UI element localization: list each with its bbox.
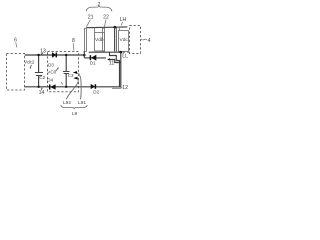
svg-text:L9: L9 <box>72 111 78 117</box>
leader 12 <box>121 87 124 88</box>
svg-text:D3: D3 <box>48 63 54 68</box>
small tick crossing bottom wire <box>61 82 63 84</box>
brace under label 2 spanning 21 and 22 <box>86 6 112 11</box>
leader 8 <box>72 43 75 50</box>
top wire 13 <box>25 54 85 56</box>
leader 22 <box>104 19 106 26</box>
svg-text:4: 4 <box>148 38 151 44</box>
vertical bus conductor 12 <box>120 52 122 87</box>
svg-text:14: 14 <box>39 90 45 96</box>
svg-text:L91: L91 <box>78 100 86 106</box>
dashed box 8 <box>48 52 79 92</box>
junction dot top bus <box>114 26 117 29</box>
underbrace L9 <box>61 105 88 109</box>
leader 21 <box>87 19 91 26</box>
svg-text:C2: C2 <box>39 75 45 80</box>
leader LL <box>123 53 125 55</box>
battery rect B (Vdb) <box>95 33 105 51</box>
svg-text:D1: D1 <box>90 61 96 66</box>
arrow wire 11 <box>108 60 121 63</box>
battery rect E (Vdc) <box>119 31 129 52</box>
node dot C2 top <box>37 54 39 56</box>
svg-text:Vdb: Vdb <box>95 37 104 43</box>
cell rect C <box>103 28 105 51</box>
node dot C3 bottom <box>65 86 67 88</box>
svg-text:12: 12 <box>122 85 128 91</box>
riser to battery Vdc <box>119 27 121 30</box>
tick on top bus <box>91 27 93 29</box>
cell rect A <box>85 28 87 51</box>
svg-text:LL: LL <box>122 54 128 60</box>
svg-text:11: 11 <box>109 61 114 67</box>
top bus wire <box>86 26 127 29</box>
second conductor line at bottom corner <box>112 87 121 89</box>
arrow VC0 <box>56 68 58 71</box>
diode D4 <box>50 84 55 90</box>
bus under batteries <box>89 51 121 53</box>
capacitor C3 <box>65 55 67 72</box>
leader LH <box>121 22 122 26</box>
diode D1 <box>91 55 96 61</box>
riser to battery Vdb <box>94 28 96 33</box>
svg-text:D2: D2 <box>93 90 99 95</box>
diode D2 <box>91 84 95 89</box>
leader arrow upper (from L91) <box>76 73 81 100</box>
leader squiggle 4 <box>141 38 148 41</box>
capacitor C2 <box>38 55 40 73</box>
node dot C2 bottom <box>37 86 39 88</box>
svg-text:13: 13 <box>40 48 46 54</box>
junction dot bus <box>120 51 123 54</box>
svg-text:Vdc2: Vdc2 <box>24 60 35 65</box>
arrow Vdc2 <box>30 65 31 68</box>
leader arrow 14 <box>40 88 43 90</box>
leader arrow lower (from L92) <box>66 78 78 99</box>
cell pair dark lines <box>114 28 116 52</box>
svg-text:L92: L92 <box>63 100 71 106</box>
wire to D1 <box>84 57 106 59</box>
corner wire from bus <box>110 52 120 87</box>
svg-text:Vdc: Vdc <box>120 37 129 43</box>
riser from cell A to node <box>83 51 85 58</box>
leader arrow 13 <box>41 53 43 55</box>
node dot at riser A <box>83 54 86 57</box>
svg-text:6: 6 <box>14 38 17 44</box>
svg-text:21: 21 <box>88 14 94 20</box>
bottom wire 14 <box>25 86 121 88</box>
leader 6 <box>15 43 18 48</box>
svg-text:VC0: VC0 <box>47 69 56 74</box>
svg-text:D4: D4 <box>47 77 53 82</box>
node dot C3 top <box>65 54 67 56</box>
dashed wire into box 4 <box>123 51 132 53</box>
dashed box 4 <box>130 26 141 54</box>
svg-text:C3: C3 <box>68 73 74 78</box>
svg-text:LH: LH <box>120 17 127 23</box>
dashed box 6 <box>7 54 25 91</box>
diode D3 <box>52 52 56 57</box>
